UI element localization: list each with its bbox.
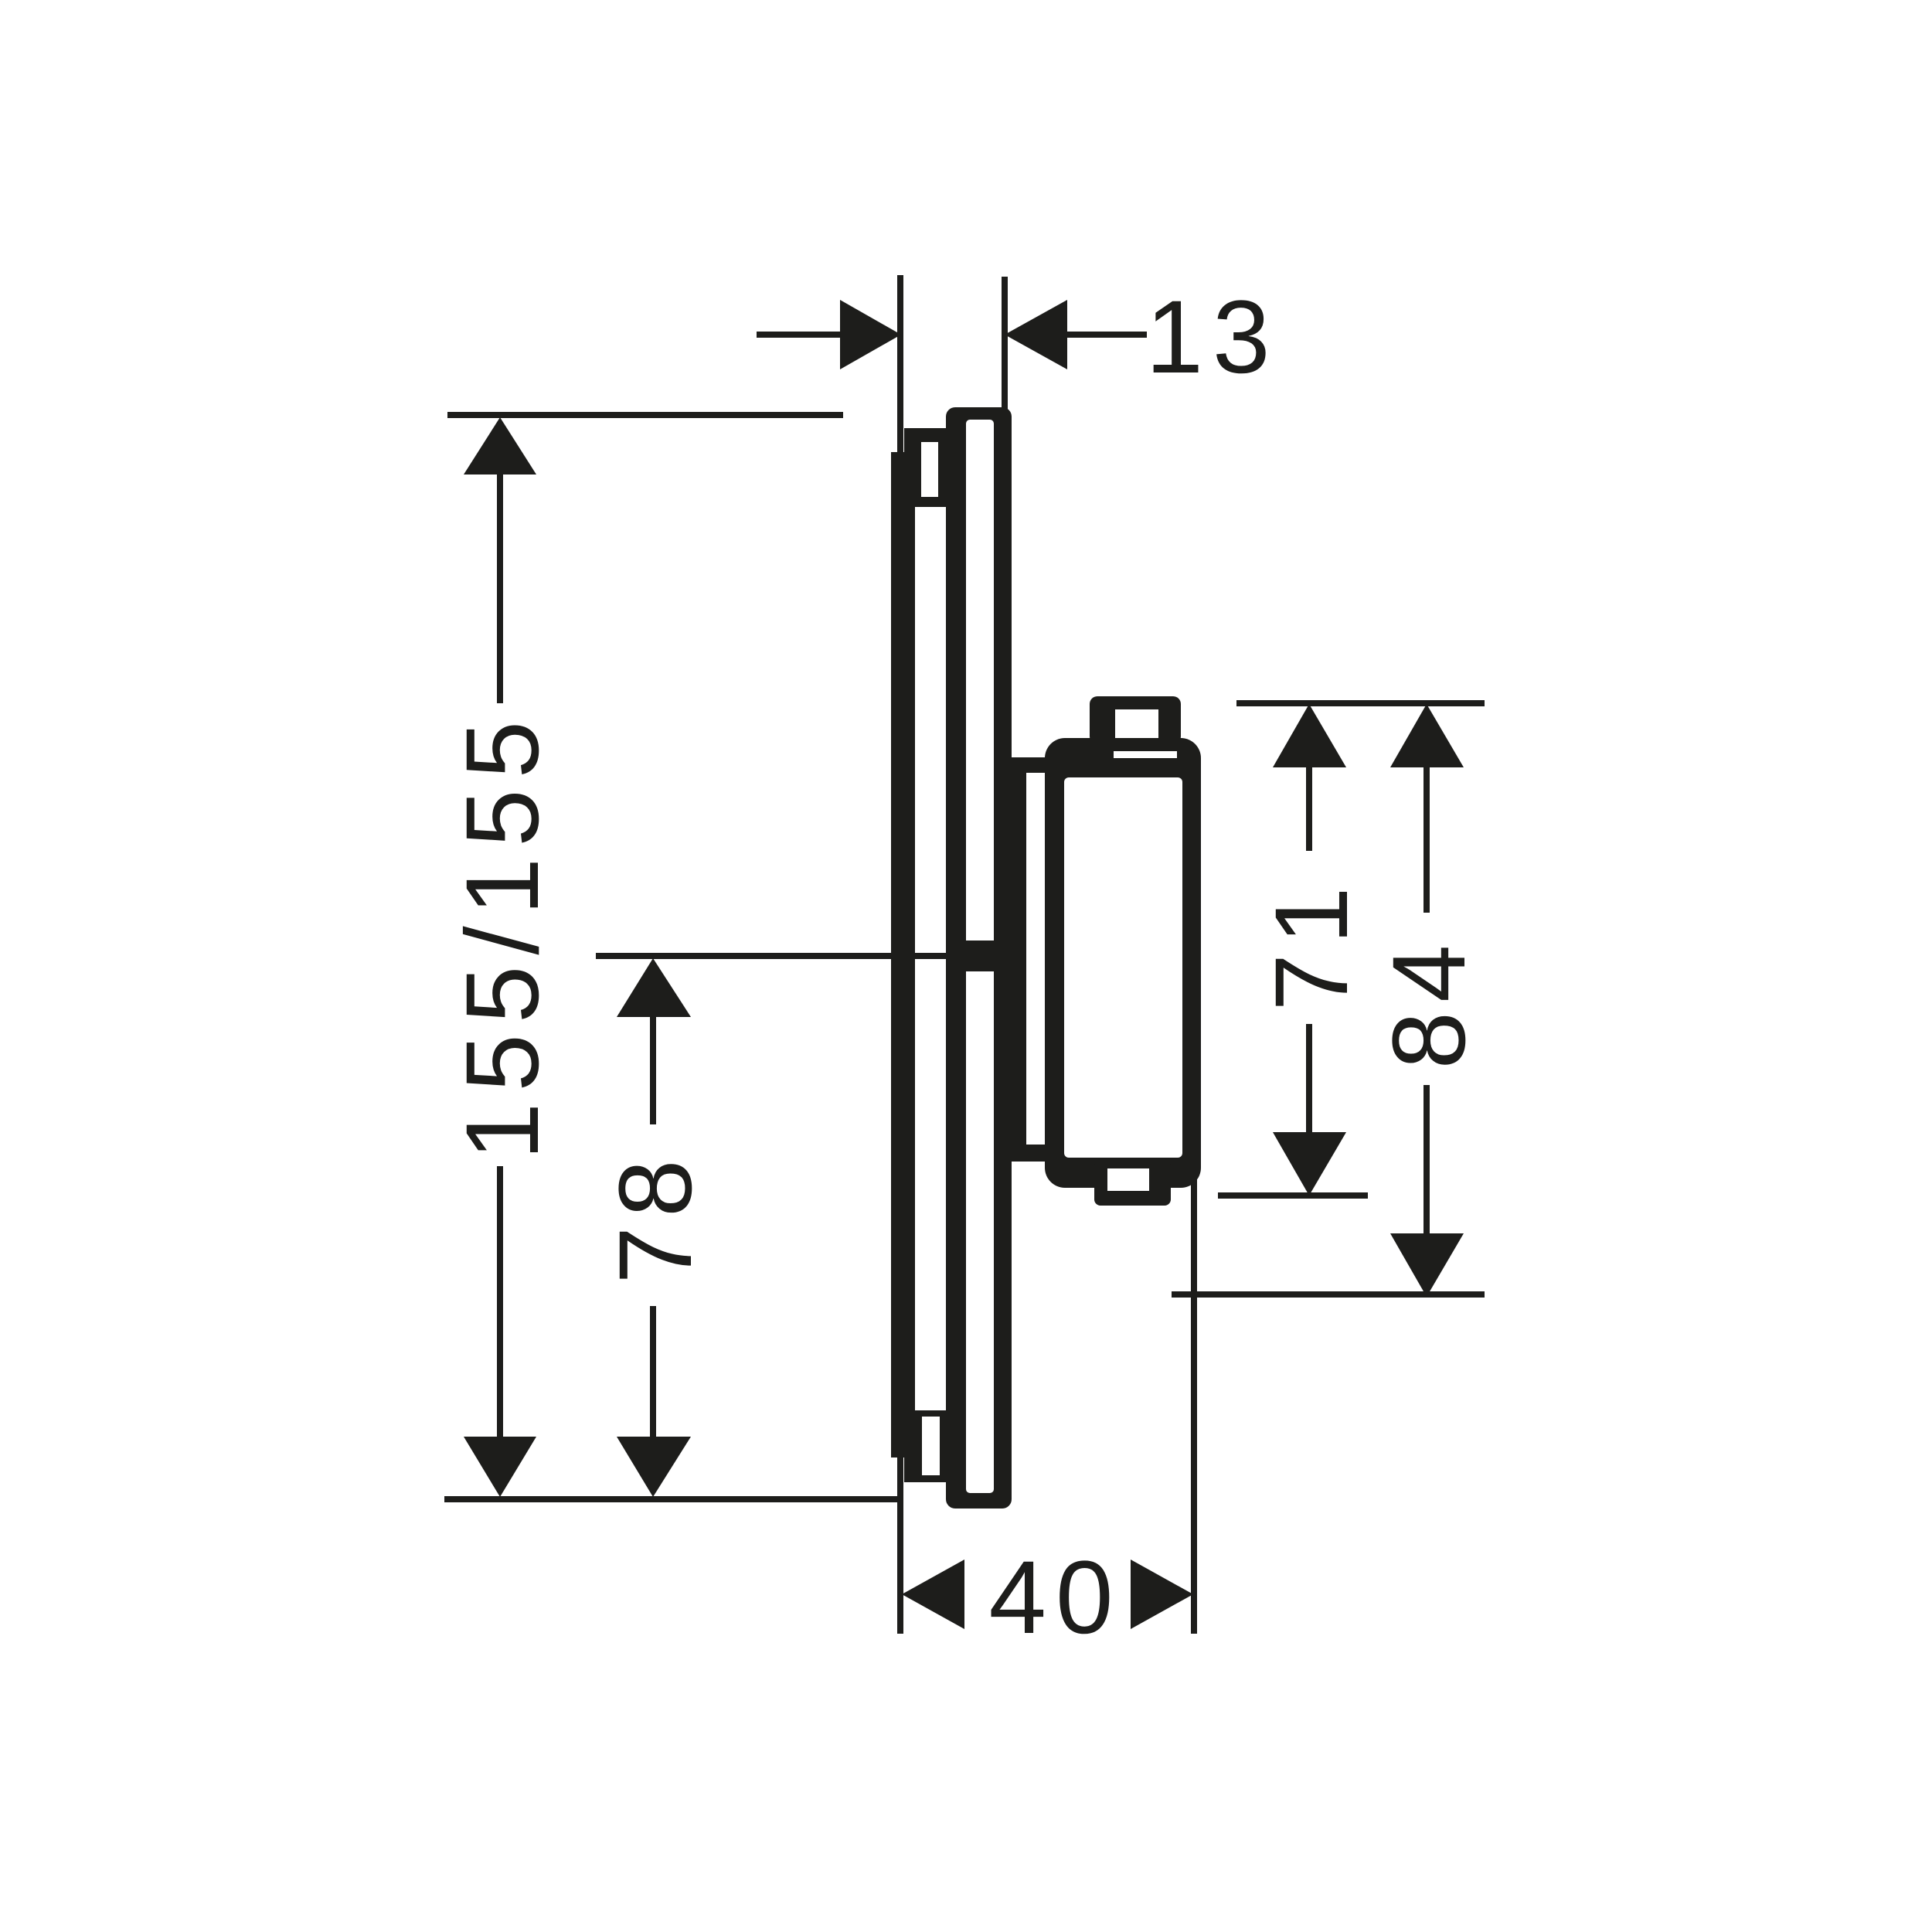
bridge band top <box>1012 757 1051 773</box>
dim 84 bottom arrow <box>1390 1233 1464 1297</box>
dim 78 centre line thick chunk <box>965 940 1002 971</box>
escutcheon plate (side section) <box>946 407 1012 1509</box>
dim 155 line lower stem <box>497 1166 503 1437</box>
dim 40 left arrow <box>902 1560 964 1629</box>
dim 71/84 top extension line <box>1236 700 1485 706</box>
svg-text:155/155: 155/155 <box>445 710 560 1160</box>
bottom clip box <box>904 1410 946 1482</box>
top knob <box>1090 696 1181 744</box>
dim 155 top extension line <box>447 412 843 418</box>
dim 71 bottom extension line <box>1218 1192 1368 1199</box>
top clip box <box>904 428 947 507</box>
dim 155 line upper stem <box>497 471 503 703</box>
dim 71 upper stem <box>1306 764 1312 851</box>
dim 13 right arrow <box>1005 300 1067 369</box>
dim 13 left leader <box>757 332 840 338</box>
dim 84 bottom extension line <box>1172 1291 1485 1298</box>
dim 13 right extension line <box>1002 277 1008 410</box>
svg-text:40: 40 <box>988 1540 1122 1655</box>
dim 71 lower stem <box>1306 1024 1312 1135</box>
dim 155 top arrow <box>464 417 536 474</box>
dim 84 top arrow <box>1390 704 1464 767</box>
dim 71 top arrow <box>1273 704 1346 767</box>
handle rosette bar <box>1012 768 1026 1157</box>
svg-text:71: 71 <box>1254 877 1369 1011</box>
cartridge block <box>1045 738 1201 1188</box>
dim 13 left arrow <box>840 300 901 369</box>
dim 78 centre extension line <box>596 953 966 959</box>
dim 40 right arrow <box>1131 1560 1193 1629</box>
dim 84 upper stem <box>1423 764 1430 913</box>
wall line <box>897 275 903 1634</box>
dim 13 right leader <box>1067 332 1147 338</box>
svg-text:13: 13 <box>1145 280 1279 395</box>
dim 155 bottom arrow <box>464 1437 536 1497</box>
dim 78 lower stem <box>650 1306 656 1437</box>
svg-text:84: 84 <box>1372 935 1487 1069</box>
dim 84 lower stem <box>1423 1085 1430 1236</box>
dim 78 top arrow <box>617 958 691 1017</box>
dim 78 bottom arrow <box>617 1437 691 1497</box>
dim 40 right extension line <box>1191 1168 1197 1634</box>
svg-text:78: 78 <box>598 1150 713 1284</box>
sleeve bar (in-wall body behind plate) <box>891 452 915 1458</box>
dim 71 bottom arrow <box>1273 1132 1346 1196</box>
bottom knob <box>1094 1159 1171 1206</box>
bridge band bottom <box>1012 1145 1051 1162</box>
dim 78 upper stem <box>650 1014 656 1124</box>
dim 155 bottom extension line <box>444 1496 900 1502</box>
